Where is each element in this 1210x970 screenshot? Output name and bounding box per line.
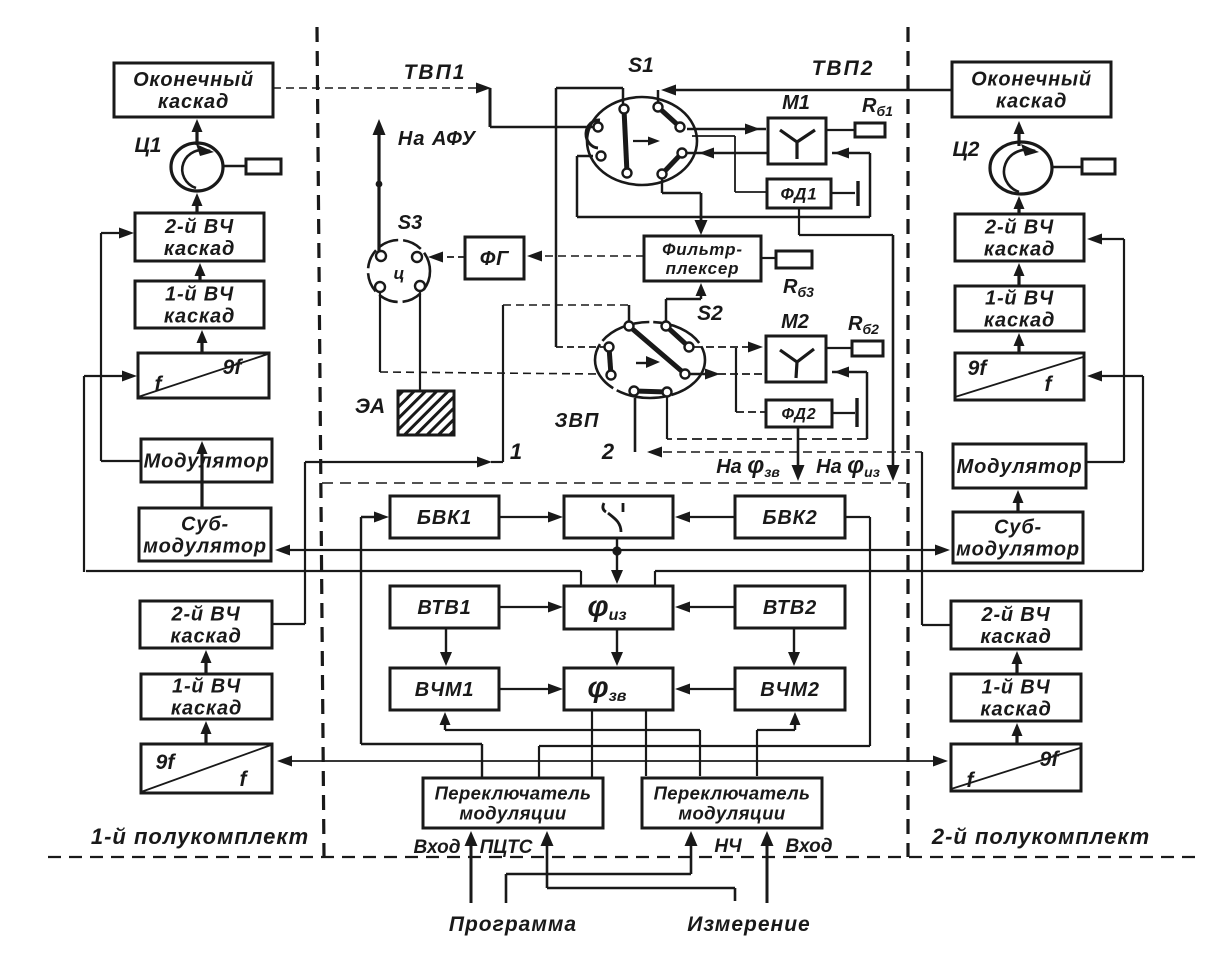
block: 2-й ВЧ каскад (right lower): [951, 601, 1081, 649]
block Переключатель модуляции 1: [423, 778, 603, 828]
block ВТВ2: [735, 586, 845, 628]
wire ФД2 to terminal bar: [832, 412, 855, 414]
wire φзв bottom-left to Переключатель модуляции 1: [591, 710, 593, 778]
svg-text:9f: 9f: [968, 357, 989, 380]
block Фильтр-плексер: [644, 236, 761, 281]
block: 1-й ВЧ каскад (right upper): [955, 286, 1084, 331]
wire S1 right-upper contact to М1 input: [687, 128, 766, 131]
svg-text:9f: 9f: [1040, 748, 1061, 771]
svg-text:1: 1: [510, 439, 522, 464]
wire Модулятор (right) to 2-й ВЧ каскад feedback: [1092, 238, 1124, 240]
svg-text:ВЧМ1: ВЧМ1: [415, 679, 475, 701]
svg-text:БВК2: БВК2: [762, 507, 817, 529]
wire Модулятор to 2-й ВЧ каскад feedback: [101, 460, 141, 462]
circulator Ц2: [990, 142, 1052, 194]
block: Суб-модулятор (left): [139, 508, 271, 561]
wire БВК1 to Переключатель модуляции 1: [361, 516, 382, 518]
wire path 2 from right lower 2-й ВЧ каскад to S2: [634, 398, 637, 452]
input arrow Программа to Переключатель 1: [470, 838, 473, 903]
svg-text:Измерение: Измерение: [687, 913, 810, 936]
svg-text:Оконечный: Оконечный: [133, 69, 254, 91]
wire path 1 from left lower 2-й ВЧ каскад to S2 rotor: [272, 623, 305, 625]
svg-text:ЭА: ЭА: [355, 395, 385, 418]
block ФГ (pilot generator): [465, 237, 524, 279]
wire tee to ФД1 input: [692, 135, 735, 137]
block: 2-й ВЧ каскад (left lower): [140, 601, 272, 648]
svg-text:каскад: каскад: [984, 239, 1055, 261]
block ВЧМ1: [390, 668, 499, 710]
svg-text:плексер: плексер: [666, 259, 740, 278]
wire arrow right lower 1-й ВЧ to lower 2-й ВЧ: [1015, 661, 1018, 674]
wire arrow right lower f/9f to lower 1-й ВЧ: [1015, 733, 1018, 744]
wire arrow lower 9f/f to lower 1-й ВЧ (left): [204, 731, 207, 744]
svg-text:S2: S2: [697, 302, 723, 325]
block ВЧМ2: [735, 668, 845, 710]
wire S1 bottom contact down to Фильтр-плексер top: [661, 178, 663, 193]
rotary switch S2: [595, 322, 705, 398]
wire 9f feedback bus y761 between lower multipliers: [286, 760, 940, 762]
svg-text:ТВП1: ТВП1: [404, 61, 467, 84]
svg-text:модуляции: модуляции: [678, 803, 785, 824]
rotary switch S3: [368, 240, 430, 302]
wire БВК2 to Переключатель модуляции 1: [845, 516, 870, 518]
wire arrow Ц1 to Оконечный каскад: [195, 129, 198, 145]
block φзв phase comparator: [564, 668, 673, 710]
wire ФД2 output down На φзв: [797, 427, 800, 470]
svg-text:ФГ: ФГ: [480, 248, 510, 270]
junction dot on reference bus: [616, 538, 618, 550]
wire arrow ВТВ1 down to ВЧМ1: [445, 628, 447, 658]
section divider dashed line right: [906, 27, 909, 857]
block БВК2: [735, 496, 845, 538]
block: 1-й ВЧ каскад (right lower): [951, 674, 1081, 721]
wire arrow right 2-й ВЧ каскад to Ц2: [1017, 206, 1020, 214]
svg-text:ТВП2: ТВП2: [812, 57, 875, 80]
wire + matched load of Ц1: [223, 165, 246, 168]
svg-text:2-й ВЧ: 2-й ВЧ: [164, 216, 234, 238]
wire ТВП2 from Оконечный каскад (right) to S1: [672, 89, 952, 92]
svg-text:каскад: каскад: [170, 626, 241, 648]
dashed boundary line middle (common section): [322, 482, 906, 484]
wire М2 right input from S2 loop: [832, 371, 867, 374]
wire Фильтр-плексер to ФГ: [536, 255, 644, 257]
wire arrow 1-й ВЧ каскад to 2-й ВЧ каскад: [198, 273, 201, 281]
input arrow Измерение to Переключатель 2: [766, 838, 769, 903]
ballast resistor Rб1: [826, 129, 855, 131]
svg-text:2-й ВЧ: 2-й ВЧ: [171, 604, 241, 626]
block: Суб-модулятор (right): [953, 512, 1083, 563]
wire arrow right 1-й ВЧ to 2-й ВЧ: [1017, 273, 1020, 286]
wire М1 return to S1 contact: [687, 152, 768, 155]
svg-text:1-й ВЧ: 1-й ВЧ: [985, 288, 1054, 310]
block: 9f/f multiplier (left lower): [141, 744, 272, 793]
svg-text:Фильтр-: Фильтр-: [662, 240, 743, 259]
block: f/9f multiplier (left upper): [138, 353, 269, 398]
wire arrow right 9f/f to 1-й ВЧ каскад: [1017, 343, 1020, 353]
wire S3 lower contact to S2 left: [379, 292, 381, 372]
svg-text:1-й ВЧ: 1-й ВЧ: [172, 676, 241, 698]
block: 1-й ВЧ каскад (left upper): [135, 281, 264, 328]
svg-text:Переключатель: Переключатель: [435, 782, 592, 803]
wire arrow ВТВ2 down to ВЧМ2: [793, 628, 795, 658]
svg-text:Вход: Вход: [414, 837, 461, 858]
svg-text:Суб-: Суб-: [994, 517, 1042, 539]
svg-text:ФД1: ФД1: [781, 184, 818, 203]
wire arrow f/9f to 1-й ВЧ каскад: [200, 340, 203, 353]
svg-text:модулятор: модулятор: [143, 536, 267, 558]
block Переключатель модуляции 2: [642, 778, 822, 828]
svg-text:Ц2: Ц2: [953, 138, 980, 161]
wire S2 upper contact to М2 input: [694, 346, 755, 348]
block: 9f/f multiplier (right upper): [955, 353, 1084, 400]
dashed boundary line bottom: [48, 856, 1196, 858]
svg-text:9f: 9f: [223, 356, 244, 379]
mixer М1: [768, 118, 826, 164]
svg-text:1-й ВЧ: 1-й ВЧ: [165, 284, 234, 306]
wire М1 right input from S1 loop: [832, 152, 870, 155]
wire arrow lower 1-й ВЧ to lower 2-й ВЧ (left): [204, 660, 207, 674]
wire φзв bottom-right to Переключатель модуляции 2: [645, 710, 647, 776]
block: Модулятор (left): [141, 439, 272, 482]
wire arrow ВТВ2 to φиз: [680, 606, 735, 608]
svg-text:Модулятор: Модулятор: [957, 456, 1083, 478]
wire reference bus y550 (switch unit output to both Суб-модулятор): [284, 549, 940, 551]
svg-text:каскад: каскад: [164, 238, 235, 260]
svg-text:ПЦТС: ПЦТС: [480, 837, 533, 858]
svg-text:Суб-: Суб-: [181, 514, 229, 536]
svg-text:2-й ВЧ: 2-й ВЧ: [984, 217, 1054, 239]
wire S3 to ЭА equivalent antenna: [419, 291, 421, 391]
ballast resistor Rб2: [826, 347, 852, 349]
wire arrow right Суб-модулятор to Модулятор: [1016, 500, 1019, 512]
block: Модулятор (right): [953, 444, 1086, 488]
svg-text:1-й ВЧ: 1-й ВЧ: [982, 677, 1051, 699]
block: 2-й ВЧ каскад (left upper): [135, 213, 264, 261]
svg-text:каскад: каскад: [158, 91, 229, 113]
wire S3 to antenna На АФУ: [377, 128, 380, 251]
wire S2 top-right contact to Фильтр-плексер bottom: [665, 299, 668, 321]
input arrow ПЦТС (from Измерение side): [546, 838, 549, 888]
wire arrow ВТВ1 to φиз: [499, 606, 556, 608]
svg-text:БВК1: БВК1: [417, 507, 472, 529]
wire arrow junction down to φиз: [616, 551, 618, 578]
block: f/9f multiplier (right lower): [951, 744, 1081, 791]
svg-text:НЧ: НЧ: [714, 836, 742, 857]
svg-text:9f: 9f: [156, 751, 177, 774]
wire arrow φиз down to φзв: [616, 629, 618, 658]
phase detector ФД1: [767, 179, 831, 208]
circulator Ц1: [171, 143, 223, 191]
svg-text:М2: М2: [781, 311, 809, 333]
svg-text:ВЧМ2: ВЧМ2: [760, 679, 820, 701]
wire arrow feedback bus to right 9f/f input: [1092, 375, 1143, 377]
wire Фильтр-плексер to Rб3: [761, 257, 776, 259]
svg-text:каскад: каскад: [996, 91, 1067, 113]
svg-text:каскад: каскад: [171, 698, 242, 720]
svg-text:ВТВ2: ВТВ2: [763, 597, 817, 619]
wire Переключатель модуляции 2 to ВЧМ1 bottom arrow: [444, 716, 446, 730]
svg-text:S3: S3: [398, 212, 422, 234]
svg-text:каскад: каскад: [980, 699, 1051, 721]
svg-text:ВТВ1: ВТВ1: [417, 597, 471, 619]
svg-text:каскад: каскад: [980, 626, 1051, 648]
block ЭА equivalent antenna (hatched): [398, 391, 454, 435]
block: 1-й ВЧ каскад (left lower): [141, 674, 272, 719]
wire ФД1 to terminal bar: [831, 192, 855, 194]
svg-text:2: 2: [601, 439, 615, 464]
svg-text:М1: М1: [782, 92, 810, 114]
svg-text:каскад: каскад: [984, 310, 1055, 332]
wire Переключатель модуляции 2 to ВЧМ2 bottom arrow: [756, 730, 758, 776]
wire arrow Ц2 to Оконечный каскад (right): [1017, 131, 1020, 146]
svg-text:Оконечный: Оконечный: [971, 69, 1092, 91]
rotary switch S1: [587, 97, 697, 185]
svg-text:2-й ВЧ: 2-й ВЧ: [981, 604, 1051, 626]
svg-text:модуляции: модуляции: [459, 803, 566, 824]
wire arrow Суб-модулятор to Модулятор: [200, 451, 203, 508]
svg-text:Ц1: Ц1: [135, 134, 162, 157]
svg-text:Вход: Вход: [786, 836, 833, 857]
svg-text:Программа: Программа: [449, 913, 577, 936]
svg-text:модулятор: модулятор: [956, 539, 1080, 561]
wire ФГ to S3: [440, 256, 465, 258]
block switch unit between БВК1 and БВК2: [564, 496, 673, 538]
wire arrow БВК1 to switch unit: [499, 516, 556, 518]
wire arrow БВК2 to switch unit: [680, 516, 735, 518]
wire arrow ВЧМ2 to φзв: [680, 688, 735, 690]
svg-text:2-й полукомплект: 2-й полукомплект: [931, 824, 1150, 849]
wire + matched load of Ц2: [1052, 166, 1082, 169]
wire tee to ФД2 input: [735, 348, 737, 412]
svg-text:S1: S1: [628, 54, 654, 77]
wire S1 rotor top to long vertical (to S2): [622, 88, 625, 104]
block φиз phase comparator: [564, 586, 673, 629]
block ВТВ1: [390, 586, 499, 628]
wire feedback bus y571 (to both f/9f multipliers): [86, 570, 581, 572]
section divider dashed line left: [317, 27, 324, 857]
svg-text:На АФУ: На АФУ: [398, 128, 477, 150]
block БВК1: [390, 496, 499, 538]
svg-text:ЗВП: ЗВП: [555, 410, 600, 432]
svg-text:каскад: каскад: [164, 306, 235, 328]
wire ТВП1 from Оконечный каскад to S1: [273, 87, 478, 89]
wire arrow ВЧМ1 to φзв: [499, 688, 556, 690]
mixer М2: [766, 336, 826, 382]
svg-text:1-й полукомплект: 1-й полукомплект: [91, 824, 309, 849]
ballast resistor Rб3: [776, 251, 812, 268]
phase detector ФД2: [766, 400, 832, 427]
block: Оконечный каскад (left output stage): [114, 63, 273, 117]
block: Оконечный каскад (right output stage): [952, 62, 1111, 117]
block: 2-й ВЧ каскад (right upper): [955, 214, 1084, 261]
wire S2 rotor output to М2: [690, 373, 708, 375]
wire arrow feedback bus to f/9f left input: [84, 375, 128, 377]
wire ФД1 output down to На φиз: [798, 208, 800, 235]
wire arrow 2-й ВЧ каскад to Ц1: [195, 203, 198, 213]
svg-text:Переключатель: Переключатель: [654, 782, 811, 803]
svg-text:ФД2: ФД2: [782, 406, 817, 423]
svg-text:ц: ц: [394, 264, 405, 283]
input arrow НЧ (from Программа side): [690, 838, 693, 874]
